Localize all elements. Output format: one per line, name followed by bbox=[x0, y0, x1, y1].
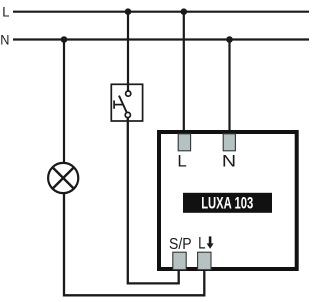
svg-text:L: L bbox=[2, 5, 9, 20]
wire N to device terminal N bbox=[228, 40, 230, 141]
junction N-device bbox=[226, 36, 233, 43]
device U1 LUXA 103 enclosure bbox=[159, 132, 297, 269]
lamp E1 bbox=[48, 163, 78, 193]
wire N to lamp E1 bbox=[63, 40, 65, 165]
switch S1 (push button) bbox=[111, 84, 142, 121]
svg-text:L: L bbox=[177, 152, 186, 171]
svg-text:LUXA 103: LUXA 103 bbox=[201, 195, 253, 213]
wire N bus bbox=[13, 38, 309, 40]
wire L to device terminal L bbox=[183, 12, 185, 140]
terminal S/P bbox=[173, 252, 186, 270]
terminal L-arrow bbox=[198, 252, 211, 270]
junction N-lamp bbox=[61, 36, 68, 43]
arrow down glyph bbox=[207, 236, 214, 248]
svg-text:S/P: S/P bbox=[169, 236, 192, 253]
junction L-device bbox=[181, 8, 188, 15]
terminal L (device input) bbox=[178, 134, 190, 151]
wire L bus bbox=[13, 11, 309, 13]
junction L-switch bbox=[125, 8, 132, 15]
nameplate LUXA 103 bbox=[183, 193, 272, 213]
svg-text:N: N bbox=[222, 152, 236, 171]
wire L to switch S1 bbox=[127, 12, 129, 92]
svg-text:N: N bbox=[0, 32, 9, 47]
terminal N (device input) bbox=[223, 134, 235, 151]
wire switch to terminal S/P bbox=[128, 118, 179, 284]
svg-text:L: L bbox=[198, 235, 205, 253]
wire lamp to terminal L-arrow bbox=[64, 192, 204, 295]
